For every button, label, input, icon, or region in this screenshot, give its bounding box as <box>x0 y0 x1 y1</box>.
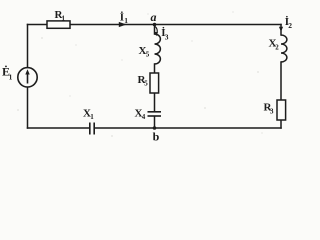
node b <box>153 126 157 130</box>
wire middle below X4 <box>154 117 156 129</box>
label I2 <box>285 16 293 30</box>
label R3 <box>264 102 275 116</box>
label X1 <box>83 108 94 122</box>
label X4 <box>135 108 146 122</box>
svg-text:b: b <box>153 130 160 144</box>
scan speckles <box>17 12 262 137</box>
resistor R3 <box>277 100 286 120</box>
arrow I2 <box>279 27 283 32</box>
wire left lower <box>27 87 29 128</box>
svg-text:1: 1 <box>124 16 128 25</box>
wire right lower <box>280 120 282 128</box>
wire middle between R5 and X4 <box>154 93 156 112</box>
wire middle upper <box>154 25 156 35</box>
arrow I3 <box>155 26 158 36</box>
wire bottom left <box>28 127 90 129</box>
svg-text:2: 2 <box>288 21 292 30</box>
svg-text:3: 3 <box>165 33 169 42</box>
wire right middle <box>280 62 282 100</box>
wire right upper <box>280 25 282 36</box>
label E1 <box>2 65 13 82</box>
inductor X2 <box>281 35 287 62</box>
capacitor X4 <box>148 112 162 116</box>
svg-text:2: 2 <box>275 44 279 52</box>
resistor R5 <box>150 73 159 93</box>
source E1 <box>18 68 37 87</box>
svg-text:1: 1 <box>90 113 94 121</box>
label X5 <box>139 45 150 59</box>
svg-text:3: 3 <box>270 108 274 116</box>
svg-text:5: 5 <box>146 51 150 59</box>
wire middle between coil and R5 <box>154 64 156 73</box>
capacitor X1 <box>90 123 94 135</box>
svg-text:a: a <box>151 10 157 24</box>
resistor R1 <box>47 21 70 28</box>
label R1 <box>55 9 66 23</box>
wire top <box>28 24 282 26</box>
arrow I1 <box>119 22 127 27</box>
inductor X5 <box>155 34 161 64</box>
label R5 <box>138 74 149 88</box>
node a <box>153 23 157 27</box>
wire left <box>27 25 29 68</box>
label I1 <box>120 12 129 26</box>
wire bottom right <box>95 127 281 129</box>
label X2 <box>269 38 280 52</box>
label I3 <box>161 27 169 42</box>
svg-text:1: 1 <box>62 15 66 23</box>
svg-text:1: 1 <box>9 73 13 82</box>
svg-text:4: 4 <box>142 113 146 121</box>
svg-text:5: 5 <box>144 80 148 88</box>
